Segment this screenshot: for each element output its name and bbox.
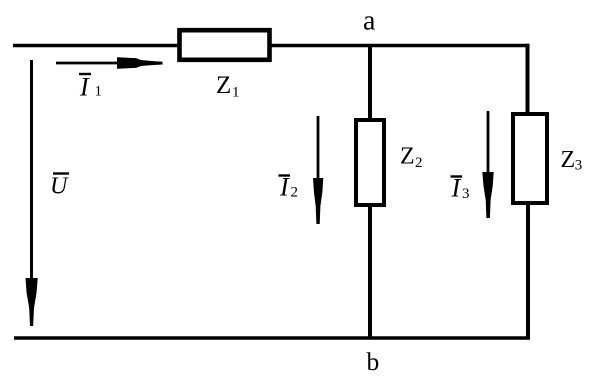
svg-text:a: a	[363, 6, 376, 37]
wire: node a down to Z2	[368, 44, 372, 120]
svg-text:Z: Z	[216, 72, 231, 99]
label I1 (with overbar)	[79, 73, 102, 102]
wire: bottom return conductor	[14, 336, 530, 340]
label Z3	[561, 147, 583, 174]
current arrow I2 (line)	[317, 116, 320, 185]
label Z1	[216, 72, 240, 101]
label Z2	[400, 144, 423, 172]
wire: top-left segment from source to Z1	[13, 44, 180, 48]
current arrow I3 (head)	[482, 172, 493, 218]
svg-text:I: I	[79, 73, 90, 102]
svg-text:Z: Z	[400, 144, 415, 170]
wire: Z3 down to bottom conductor	[526, 203, 530, 338]
svg-text:U: U	[50, 174, 69, 200]
svg-text:I: I	[451, 174, 462, 203]
label I2 (with overbar)	[279, 173, 299, 202]
current arrow I2 (head)	[313, 178, 323, 224]
svg-text:2: 2	[291, 185, 299, 201]
svg-text:3: 3	[462, 186, 470, 202]
voltage arrow U (head)	[26, 278, 38, 326]
impedance Z3 (shunt box)	[513, 114, 547, 203]
voltage arrow U (line)	[30, 60, 33, 285]
label U (with overbar)	[50, 174, 69, 200]
wire: right vertical from top corner down to Z3	[526, 44, 530, 114]
svg-text:3: 3	[575, 158, 583, 174]
current arrow I1 (head)	[117, 57, 163, 68]
wire: top segment from Z1 through node a to right corner	[269, 44, 529, 48]
svg-text:I: I	[279, 173, 290, 202]
wire: Z2 down to bottom conductor	[368, 205, 372, 338]
svg-text:2: 2	[415, 155, 423, 171]
label I3 (with overbar)	[451, 174, 470, 203]
current arrow I3 (line)	[487, 111, 490, 180]
svg-text:Z: Z	[561, 147, 576, 173]
current arrow I1 (line)	[56, 62, 125, 65]
impedance Z2 (shunt box)	[356, 120, 384, 205]
svg-text:1: 1	[95, 84, 103, 100]
svg-text:1: 1	[232, 85, 240, 101]
impedance Z1 (series box)	[180, 30, 270, 60]
svg-text:b: b	[367, 347, 380, 376]
